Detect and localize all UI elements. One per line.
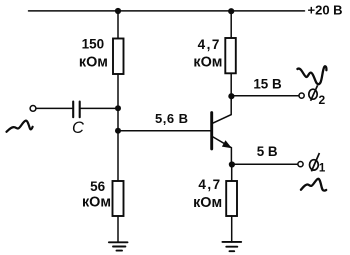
wire R4.7k to collector node — [230, 73, 232, 100]
capacitor C — [73, 102, 80, 118]
svg-text:56: 56 — [90, 179, 106, 194]
node base junction — [115, 128, 121, 134]
output terminal phi1 — [298, 162, 303, 167]
svg-text:кОм: кОм — [193, 55, 222, 71]
wire +20V rail — [29, 10, 305, 12]
transistor collector lead — [213, 98, 232, 123]
svg-text:1: 1 — [319, 163, 326, 175]
node rail-left junction — [115, 8, 121, 14]
svg-text:150: 150 — [82, 37, 105, 52]
svg-text:+20 В: +20 В — [308, 2, 343, 17]
wire rail to R 4.7k collector — [230, 11, 232, 38]
wire capacitor to base node — [81, 107, 118, 109]
transistor emitter lead — [213, 137, 232, 165]
svg-text:4,7: 4,7 — [198, 177, 221, 192]
output label phi2 — [309, 85, 318, 101]
svg-text:15 В: 15 В — [253, 77, 282, 92]
phi1 waveform squiggle — [301, 179, 326, 191]
ground right — [222, 242, 241, 251]
ground left — [109, 242, 128, 250]
transistor base bar — [210, 113, 213, 149]
wire base node to transistor base — [118, 130, 210, 132]
wire rail to R 150k — [117, 11, 119, 39]
transistor emitter arrow — [222, 140, 232, 148]
input terminal — [30, 106, 36, 112]
wire collector to phi2 terminal — [231, 95, 298, 97]
wire R56k to ground — [117, 216, 119, 242]
resistor 150 kOhm — [113, 39, 124, 75]
svg-text:4,7: 4,7 — [198, 37, 221, 52]
wire R4.7k emitter to ground — [231, 216, 233, 242]
svg-text:кОм: кОм — [193, 195, 222, 211]
resistor 4.7 kOhm collector — [225, 38, 236, 73]
svg-text:C: C — [72, 119, 84, 137]
svg-text:кОм: кОм — [82, 194, 111, 210]
svg-text:5 В: 5 В — [257, 144, 278, 159]
node rail-right junction — [228, 8, 234, 14]
svg-text:5,6 В: 5,6 В — [155, 111, 189, 126]
svg-text:2: 2 — [319, 93, 326, 107]
node emitter junction — [229, 161, 235, 167]
input waveform squiggle — [7, 121, 33, 132]
wire R150k to base node — [117, 74, 119, 181]
wire input to capacitor — [36, 107, 72, 109]
wire emitter node to R 4.7k emitter — [231, 165, 233, 182]
node collector junction — [228, 93, 234, 99]
node capacitor junction — [115, 105, 121, 111]
resistor 4.7 kOhm emitter — [226, 181, 237, 216]
phi2 waveform squiggle — [297, 66, 326, 84]
output terminal phi2 — [299, 93, 304, 98]
output label phi1 — [310, 153, 320, 171]
resistor 56 kOhm — [113, 181, 124, 216]
svg-text:кОм: кОм — [79, 54, 108, 70]
wire emitter to phi1 terminal — [232, 163, 298, 165]
